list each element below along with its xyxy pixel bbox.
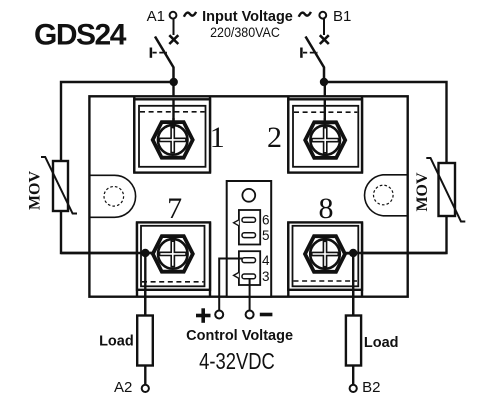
connector top hole (242, 189, 255, 202)
wire from pin3 to minus terminal (249, 279, 251, 311)
junction dot 8 (349, 249, 357, 257)
wire re-draw load B drop (352, 253, 354, 315)
svg-text:Input Voltage: Input Voltage (202, 9, 293, 25)
pin 3 slot (242, 274, 256, 279)
terminal box 1 (134, 96, 210, 172)
svg-text:MOV: MOV (26, 171, 43, 211)
svg-text:7: 7 (167, 192, 182, 225)
AC symbol ~ right (299, 12, 311, 17)
screw 7 (153, 236, 193, 272)
terminal box 7 (137, 222, 210, 296)
wire stub dot7 to screw7 (145, 252, 155, 254)
mounting tab right (365, 175, 408, 216)
svg-text:Control Voltage: Control Voltage (186, 328, 293, 344)
X mark B (320, 35, 329, 44)
wire re-draw screw8 feed (327, 252, 447, 254)
pin 4 slot (242, 258, 256, 263)
X mark A (169, 35, 178, 44)
junction dot B (320, 78, 328, 86)
wire top-left rail (61, 82, 174, 162)
svg-text:4: 4 (262, 253, 270, 268)
relay body (89, 96, 407, 296)
wire B1 circle to X (323, 19, 325, 35)
arrow lower (234, 272, 239, 278)
terminal A2 (142, 385, 149, 392)
switch blade A (155, 37, 174, 80)
terminal box 2 (288, 96, 362, 172)
screw 8 (305, 236, 345, 272)
plus sign (196, 308, 211, 323)
wire re-draw screw1 feed (172, 99, 174, 138)
svg-text:220/380VAC: 220/380VAC (210, 24, 280, 40)
wire screw8 to load B (352, 253, 354, 385)
svg-text:5: 5 (262, 228, 270, 243)
wire stub into screw2 (324, 118, 326, 129)
wire re-draw screw7 feed (61, 252, 171, 254)
terminal A1 (170, 12, 177, 19)
mounting hole right (374, 185, 394, 205)
wire bottom-left rail (61, 211, 171, 253)
svg-text:2: 2 (267, 121, 282, 154)
wire screw7 to load A (144, 253, 146, 385)
pin block upper (239, 210, 260, 245)
wire re-draw screw2 feed (324, 99, 326, 138)
wire bottom-right rail (327, 216, 447, 253)
wire B switch to screw2 (324, 80, 326, 138)
svg-text:4-32VDC: 4-32VDC (199, 349, 275, 374)
minus sign (260, 313, 273, 317)
AC symbol ~ left (184, 12, 196, 17)
wire stub into screw1 (172, 118, 174, 129)
wire stub dot8 to screw8 (343, 252, 353, 254)
svg-text:MOV: MOV (414, 172, 431, 212)
junction dot A (170, 78, 178, 86)
mounting hole left (104, 187, 124, 207)
svg-text:GDS24: GDS24 (34, 19, 127, 52)
pin 5 slot (242, 233, 256, 238)
svg-text:A1: A1 (147, 8, 165, 25)
svg-text:1: 1 (210, 121, 225, 154)
switch actuator A (150, 48, 153, 58)
wire A1 circle to X (173, 19, 175, 35)
load resistor A (137, 316, 153, 366)
pin 6 slot (242, 218, 256, 223)
wire from plus terminal to pin4 (219, 259, 243, 311)
load resistor B (346, 316, 361, 366)
screw 1 (153, 122, 193, 158)
terminal box 8 (288, 222, 362, 296)
screw 2 (305, 122, 345, 158)
mounting tab left (89, 175, 135, 217)
svg-text:8: 8 (319, 192, 334, 225)
arrow upper (234, 220, 239, 226)
control terminal minus (246, 311, 254, 319)
svg-text:B1: B1 (333, 8, 351, 25)
terminal B2 (350, 385, 357, 392)
varistor MOV right (426, 158, 465, 222)
svg-text:6: 6 (262, 213, 270, 228)
pin block lower (239, 251, 260, 285)
terminal B1 (319, 12, 326, 19)
wire top-right rail (324, 82, 447, 164)
svg-text:B2: B2 (362, 379, 380, 396)
varistor MOV left (41, 157, 77, 214)
svg-text:3: 3 (262, 269, 270, 284)
junction dot 7 (141, 249, 149, 257)
control connector block (227, 181, 272, 297)
switch actuator B (300, 48, 303, 58)
svg-text:Load: Load (99, 333, 134, 349)
wire A switch to screw1 (172, 80, 174, 138)
wire re-draw load A drop (144, 253, 146, 316)
svg-text:Load: Load (364, 335, 399, 351)
svg-text:A2: A2 (114, 379, 132, 396)
control terminal plus (215, 311, 223, 319)
switch blade B (306, 37, 325, 80)
